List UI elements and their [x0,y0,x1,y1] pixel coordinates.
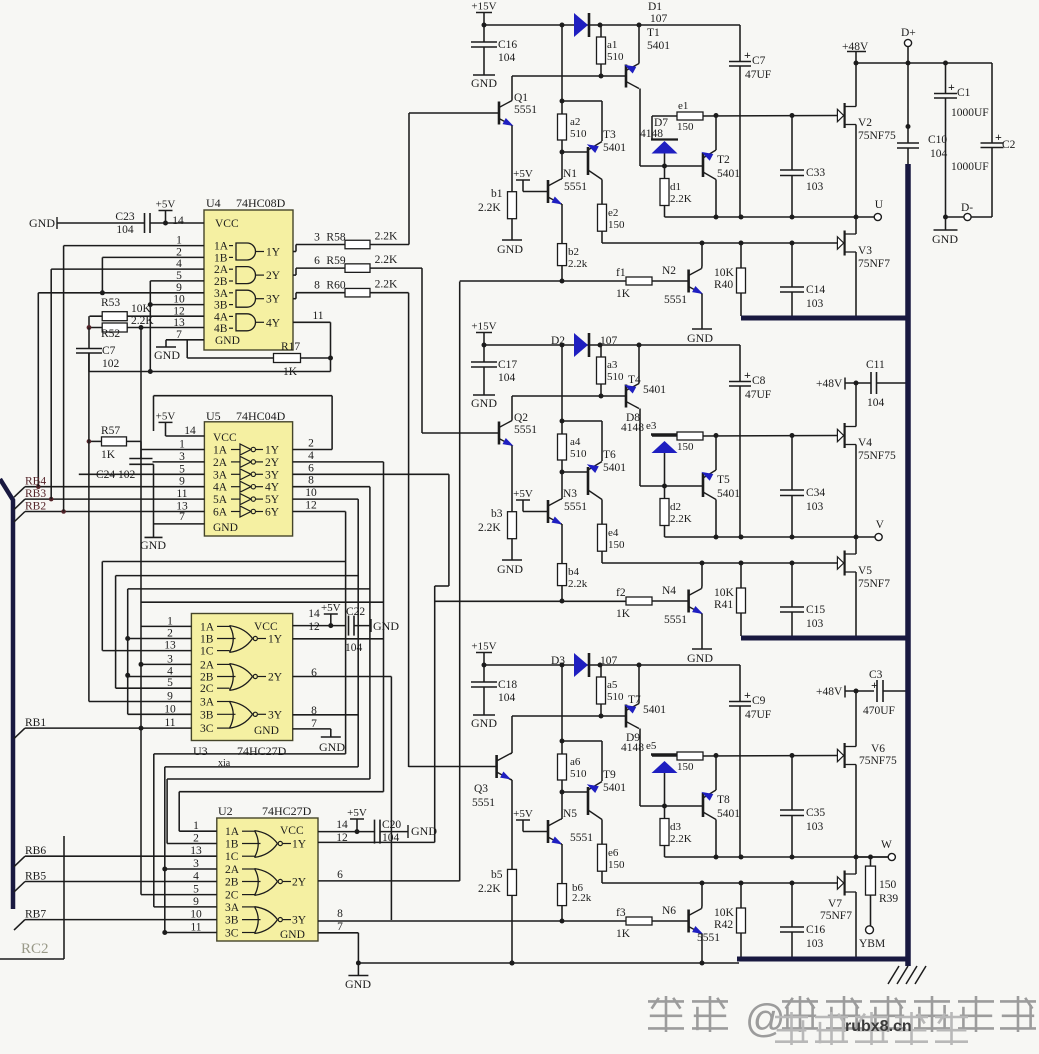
terminal D- [964,213,971,220]
svg-text:1000UF: 1000UF [951,107,989,119]
svg-text:T2: T2 [717,154,730,166]
svg-text:5551: 5551 [472,797,495,809]
svg-text:GND: GND [932,232,958,246]
svg-text:1Y: 1Y [265,445,280,457]
svg-text:1A: 1A [200,621,215,633]
svg-text:f1: f1 [616,267,626,279]
svg-text:T5: T5 [717,474,730,486]
mosfet V4 [837,429,843,441]
mosfet V3 [837,237,843,249]
resistor b1 2.2K [508,192,517,219]
svg-text:d3: d3 [670,821,682,833]
bootstrap capacitor C7/C8/C9 47UF [739,345,741,382]
svg-text:1C: 1C [200,646,214,658]
svg-text:C9: C9 [752,695,766,707]
svg-text:150: 150 [677,761,694,773]
svg-text:5Y: 5Y [265,494,280,506]
wire U2 pin14 VCC [318,831,375,833]
svg-text:1A: 1A [225,826,240,838]
U4 AND gate 2 [236,267,256,284]
transistor Q3 5551 NPN [495,755,498,778]
svg-text:T4: T4 [628,374,641,386]
svg-text:e1: e1 [678,100,688,112]
svg-text:6: 6 [314,255,320,267]
wire a2 to T3 [562,420,602,422]
wire U4 pin1 [64,245,204,247]
diode D2 107 [574,333,588,357]
capacitor C14/C15/C16 103 [791,563,793,607]
resistor a5 510 [600,665,602,677]
svg-text:RB5: RB5 [25,871,46,883]
MCU chip edge thick navy [0,479,13,909]
wire pin14 [57,222,144,224]
svg-text:V2: V2 [858,117,872,129]
ground rail GND symbol [357,963,359,976]
svg-text:9: 9 [193,896,199,908]
wire U3 2A [141,663,191,665]
logic ground rail bottom [358,962,739,964]
svg-text:GND: GND [373,619,399,633]
svg-text:+: + [744,368,751,382]
resistor R59 2.2K [345,264,370,273]
svg-text:D3: D3 [551,655,565,667]
ground C16 [473,74,495,76]
svg-text:4: 4 [308,450,314,462]
svg-text:13: 13 [164,640,176,652]
resistor d3 2.2K [664,806,666,819]
capacitor C16 104 [483,25,485,42]
svg-text:103: 103 [806,501,824,513]
svg-text:6: 6 [308,462,314,474]
svg-text:2A: 2A [213,457,228,469]
resistor R52 2.2K [102,323,127,332]
resistor R57 1K [102,437,127,446]
svg-text:e6: e6 [608,847,619,859]
resistor e6 150 [598,844,607,871]
svg-text:T3: T3 [603,129,616,141]
svg-text:GND: GND [29,216,55,230]
wire upper gate line [703,435,837,438]
earth ground hatch bottom right [888,966,899,984]
wire U3 3A [89,701,191,703]
svg-text:2: 2 [167,628,173,640]
svg-text:1K: 1K [616,928,631,940]
wire +15V rail [484,344,740,346]
svg-text:103: 103 [806,618,824,630]
svg-text:+5V: +5V [156,199,176,211]
svg-text:U4: U4 [206,196,221,210]
svg-text:14: 14 [308,608,320,620]
svg-text:C33: C33 [806,167,825,179]
svg-text:14: 14 [184,425,196,437]
svg-text:C15: C15 [806,604,825,616]
svg-text:12: 12 [305,500,317,512]
resistor e4 150 [598,524,607,551]
svg-text:b4: b4 [568,566,580,578]
svg-text:5A: 5A [213,494,228,506]
svg-text:rubx8.cn: rubx8.cn [845,1018,912,1035]
thick DC bus vertical [905,164,911,966]
svg-text:2B: 2B [200,672,214,684]
U3 NOR gate 3 [230,701,234,728]
wire U5 pin1 [141,449,204,451]
wire U4 pin2 [102,256,204,258]
transistor T7 5401 PNP [625,705,628,728]
svg-text:C17: C17 [498,359,517,371]
svg-text:1Y: 1Y [268,634,283,646]
svg-text:T1: T1 [647,27,660,39]
svg-text:3B: 3B [225,915,239,927]
svg-text:V5: V5 [858,565,872,577]
wire GND leg x153 [153,464,155,537]
svg-text:YBM: YBM [859,938,885,950]
resistor a1 510 [600,25,602,37]
svg-text:12: 12 [308,621,320,633]
svg-text:510: 510 [570,768,587,780]
svg-text:VCC: VCC [215,218,239,230]
wire H2 [116,575,359,577]
wire U5 pin5 [79,473,205,475]
mosfet V7 [837,877,843,889]
wire vertical C7 net to U3 3A [88,353,90,702]
U3 NOR gate 1 [230,626,234,653]
transistor Q1 5551 NPN [498,102,501,125]
svg-text:10: 10 [190,909,202,921]
resistor b6 2.2k [558,884,567,906]
svg-text:3A: 3A [225,902,240,914]
svg-text:3A: 3A [213,469,228,481]
svg-text:2.2K: 2.2K [478,202,501,214]
svg-text:GND: GND [319,740,345,754]
svg-text:5401: 5401 [643,384,666,396]
svg-text:6Y: 6Y [265,507,280,519]
wire R57 left [89,440,102,442]
thick ground bus segment [741,316,910,321]
wire vertical RB4 net [37,293,39,487]
svg-text:a6: a6 [570,756,581,768]
svg-text:510: 510 [607,371,624,383]
svg-text:GND: GND [140,538,166,552]
pin stub RB6 [14,856,25,867]
transistor N4 5551 NPN [687,590,690,613]
svg-text:150: 150 [608,539,625,551]
wire C7 bottom [88,353,90,372]
resistor R39 150 [868,855,873,860]
svg-text:N6: N6 [662,905,676,917]
svg-text:3Y: 3Y [266,294,281,306]
wire U2 2C stub [141,894,217,896]
svg-text:e3: e3 [646,420,657,432]
svg-text:b5: b5 [491,869,503,881]
svg-text:4: 4 [193,871,199,883]
U5 inverter 6 [240,506,251,517]
bootstrap capacitor C7/C8/C9 47UF [739,665,741,702]
wire vertical RB3 net [50,269,52,499]
wire U4 pin9 [38,292,204,294]
wire U4 pin10 [150,304,204,306]
svg-text:GND: GND [280,929,305,941]
svg-text:a4: a4 [570,436,581,448]
transistor N2 5551 NPN [687,270,690,293]
svg-text:a2: a2 [570,116,580,128]
wire U4 pin13 [90,327,205,329]
svg-text:GND: GND [471,76,497,90]
wire U3 3Y output [293,714,359,716]
svg-text:5401: 5401 [717,488,740,500]
svg-text:C7: C7 [102,345,116,357]
svg-text:5551: 5551 [664,294,687,306]
capacitor C2 1000UF [991,63,993,143]
svg-text:1000UF: 1000UF [951,161,989,173]
svg-text:104: 104 [116,224,134,236]
U2 NOR gate 1 [255,831,259,858]
svg-text:GND: GND [345,977,371,991]
svg-text:C7: C7 [752,55,766,67]
wire U3 1C [102,650,191,652]
svg-text:150: 150 [608,219,625,231]
svg-text:2C: 2C [200,683,214,695]
svg-text:e2: e2 [608,207,618,219]
svg-text:4148: 4148 [621,422,644,434]
svg-text:R42: R42 [714,919,733,931]
svg-text:N4: N4 [662,585,676,597]
svg-text:+5V: +5V [347,807,367,819]
svg-text:150: 150 [677,441,694,453]
wire T1 base line [512,395,626,397]
svg-text:T6: T6 [603,449,616,461]
svg-text:1B: 1B [200,634,214,646]
svg-text:1K: 1K [616,608,631,620]
svg-text:W: W [881,839,892,851]
svg-text:2: 2 [193,833,199,845]
svg-text:V6: V6 [871,743,885,755]
wire U4 pin12 [90,315,205,317]
resistor e3 150 [677,432,703,440]
svg-text:4Y: 4Y [266,317,281,329]
capacitor C11 104 [870,372,872,394]
svg-text:5401: 5401 [603,142,626,154]
wire U4 4Y pin11 [293,321,331,323]
svg-text:C35: C35 [806,807,825,819]
wire U5 pin14 [166,435,205,437]
svg-text:+: + [744,48,751,62]
svg-text:C10: C10 [928,134,947,146]
svg-text:150: 150 [608,859,625,871]
svg-text:1C: 1C [225,851,239,863]
svg-text:3B: 3B [214,300,228,312]
svg-text:470UF: 470UF [863,705,895,717]
svg-text:+48V: +48V [816,378,843,390]
svg-text:510: 510 [607,51,624,63]
resistor a4 510 [561,345,563,434]
svg-text:RB2: RB2 [25,501,46,513]
svg-text:75NF7: 75NF7 [858,258,890,270]
svg-text:GND: GND [687,331,713,345]
svg-text:3: 3 [179,451,185,463]
transistor N6 5551 NPN [687,910,690,933]
svg-text:N1: N1 [563,168,577,180]
svg-text:1K: 1K [101,449,116,461]
svg-text:3A: 3A [214,288,229,300]
svg-text:3: 3 [314,232,320,244]
U5 inverter 1 [240,444,251,455]
U5 inverter 2 [240,456,251,467]
svg-text:GND: GND [497,562,523,576]
svg-text:C18: C18 [498,679,517,691]
wire U4 pin5 [150,280,204,282]
wire U3 1Y output [293,638,384,640]
svg-text:R60: R60 [326,280,345,292]
svg-text:RC2: RC2 [21,941,49,957]
svg-text:2B: 2B [225,877,239,889]
svg-text:V4: V4 [858,437,872,449]
wire U3 3B [128,713,192,715]
capacitor C7 102 [76,348,102,350]
svg-text:+5V: +5V [513,168,533,180]
svg-text:+15V: +15V [471,641,496,653]
svg-text:2.2k: 2.2k [572,892,592,904]
wire R58 to Q1 base [370,244,409,246]
wire U4 output 1Y [293,251,296,253]
svg-text:R58: R58 [326,232,345,244]
resistor d2 2.2K [664,486,666,499]
capacitor C33/C34/C35 103 [791,116,793,171]
svg-text:5551: 5551 [514,104,537,116]
svg-text:10: 10 [164,703,176,715]
svg-text:11: 11 [312,310,323,322]
svg-text:GND: GND [215,335,240,347]
svg-text:2.2K: 2.2K [375,279,398,291]
svg-text:+5V: +5V [156,410,176,422]
wire output rail [665,536,858,538]
resistor a6 510 [561,665,563,754]
wire C24 to GND leg [153,463,154,465]
wire RB1 to U3 3C [25,727,191,729]
U4 AND gate 4 [236,314,256,331]
svg-text:U5: U5 [206,409,221,423]
svg-text:4B: 4B [214,323,228,335]
wire U3 1A [141,625,191,627]
U5 inverter 5 [240,494,251,505]
svg-text:75NF75: 75NF75 [859,755,897,767]
wire U5 1Y loop [293,449,333,451]
svg-text:+15V: +15V [471,321,496,333]
resistor b5 2.2K [508,869,517,895]
wire C7 top [88,328,90,349]
wire U5 4Y loop [293,486,370,488]
wire H1 [102,561,345,563]
transistor T9 5401 PNP [587,787,590,815]
svg-text:7: 7 [179,511,185,523]
svg-text:R39: R39 [879,893,898,905]
svg-text:3: 3 [193,858,199,870]
mosfet V2 [837,109,843,121]
bootstrap capacitor C7/C8/C9 47UF [739,25,741,62]
svg-text:150: 150 [677,121,694,133]
svg-text:V7: V7 [828,898,842,910]
U3 NOR gate 2 [230,664,234,691]
svg-text:5401: 5401 [717,168,740,180]
svg-text:104: 104 [498,372,516,384]
wire U3 pin7 [293,728,331,730]
transistor T5 5401 PNP [702,473,705,497]
pin stub RB3 [14,499,25,510]
svg-text:+5V: +5V [513,488,533,500]
wire f line and resistor f2 1K [435,600,626,602]
svg-text:R40: R40 [714,279,733,291]
transistor T2 5401 PNP [702,153,705,177]
svg-text:9: 9 [167,691,173,703]
resistor e5 150 [677,752,703,760]
svg-text:2.2K: 2.2K [375,254,398,266]
resistor a2 510 [561,25,563,114]
svg-text:4148: 4148 [640,128,663,140]
diode D7 4148 [651,138,678,140]
wire vertical H1 to U3 1C [101,562,103,651]
resistor d1 2.2K [664,166,666,179]
mosfet V6 [837,749,843,761]
ground U5 C24 [145,536,163,538]
thick ground bus bottom [737,957,910,962]
wire lower gate line [602,882,837,884]
resistor b3 2.2K [508,512,517,539]
svg-text:VCC: VCC [280,825,304,837]
wire U3 1B [128,638,192,640]
svg-text:9: 9 [176,282,182,294]
capacitor C33/C34/C35 103 [791,436,793,491]
wire vertical U4pin13 to U3 inputs and U2 2C [140,328,142,895]
svg-text:N3: N3 [563,488,577,500]
svg-text:d2: d2 [670,501,681,513]
svg-text:2C: 2C [225,890,239,902]
svg-text:47UF: 47UF [745,709,771,721]
svg-text:3Y: 3Y [292,915,307,927]
IC U5 74HC04D body [204,422,292,536]
wire T1 collector to D cluster [640,805,703,807]
transistor T3 5401 PNP [587,147,590,175]
pin stub RB2 [14,512,25,523]
svg-text:5551: 5551 [564,501,587,513]
U4 AND gate 1 [236,243,256,260]
watermark row 2 pseudo glyphs [775,1016,808,1019]
svg-text:1: 1 [167,615,173,627]
node R17 right [328,356,333,361]
svg-text:GND: GND [687,651,713,665]
svg-text:U3: U3 [193,744,208,758]
svg-text:a5: a5 [607,679,618,691]
diode D3 107 [574,653,588,677]
svg-text:C34: C34 [806,487,825,499]
ground U3 pin7 [321,736,341,738]
wire U4 pin7 GND [166,339,204,341]
svg-text:107: 107 [600,335,618,347]
resistor b2 2.2k [558,244,567,266]
ground C17 [473,394,495,396]
svg-text:13: 13 [190,845,202,857]
svg-text:10K: 10K [714,587,735,599]
svg-text:8: 8 [308,475,314,487]
wire output rail [665,856,889,858]
svg-text:5551: 5551 [664,614,687,626]
resistor a3 510 [600,345,602,357]
svg-text:1Y: 1Y [266,247,281,259]
svg-text:6A: 6A [213,507,228,519]
resistor R42 10K [740,883,742,908]
terminal V [856,536,875,538]
svg-text:VCC: VCC [254,621,278,633]
svg-text:2A: 2A [225,864,240,876]
svg-text:a1: a1 [607,39,617,51]
